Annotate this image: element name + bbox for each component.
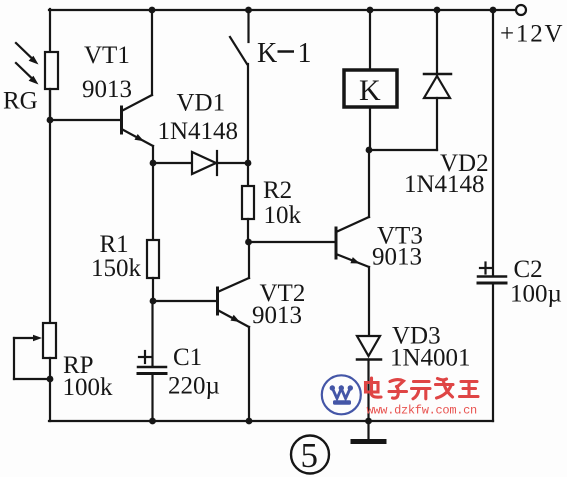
wire R1 bottom bbox=[152, 278, 154, 301]
diode VD2 bbox=[424, 10, 451, 150]
wire top rail bbox=[49, 9, 516, 11]
wire R2 bottom bbox=[247, 219, 249, 242]
transistor VT3 bbox=[336, 217, 369, 267]
label K-1 dash and 1 bbox=[278, 50, 295, 53]
wire RP bottom to bottom rail bbox=[49, 358, 51, 421]
wire left rail upper bbox=[49, 9, 51, 120]
node +12V terminal bbox=[516, 5, 526, 15]
svg-text:1: 1 bbox=[298, 38, 312, 69]
capacitor C1 bbox=[138, 301, 166, 421]
capacitor C2 bbox=[478, 10, 506, 421]
svg-text:220µ: 220µ bbox=[168, 373, 220, 400]
junction dots bbox=[149, 7, 156, 14]
svg-text:C2: C2 bbox=[514, 256, 543, 283]
svg-text:RG: RG bbox=[3, 88, 38, 115]
wire relay node horizontal bbox=[369, 149, 437, 151]
circuit number badge bbox=[291, 436, 329, 474]
svg-text:+12V: +12V bbox=[500, 21, 564, 48]
potentiometer RP wiper bbox=[14, 335, 50, 379]
watermark logo circle bbox=[322, 375, 361, 414]
svg-text:150k: 150k bbox=[91, 255, 142, 282]
svg-text:100k: 100k bbox=[63, 374, 114, 401]
svg-text:VD1: VD1 bbox=[177, 90, 226, 117]
photoresistor RG arrows bbox=[16, 43, 39, 85]
transistor VT2 bbox=[218, 278, 250, 327]
svg-text:9013: 9013 bbox=[82, 76, 132, 103]
svg-text:K: K bbox=[257, 38, 277, 69]
wire switch to VD1 node bbox=[247, 64, 249, 186]
svg-text:VT1: VT1 bbox=[84, 42, 130, 69]
wire VT2 base bbox=[153, 300, 217, 302]
wire VD1 anode bbox=[153, 162, 248, 164]
wire VT2 emitter to bottom rail bbox=[248, 327, 250, 421]
switch K-1 bbox=[230, 10, 249, 64]
svg-text:9013: 9013 bbox=[372, 244, 422, 271]
svg-text:C1: C1 bbox=[173, 344, 202, 371]
wire VT2 collector up bbox=[248, 242, 250, 278]
resistor R2 body bbox=[242, 186, 254, 219]
watermark logo W bbox=[330, 385, 353, 404]
svg-text:www.dzkfw.com.cn: www.dzkfw.com.cn bbox=[367, 404, 478, 418]
wire VT1 base bbox=[50, 119, 120, 121]
svg-text:1N4148: 1N4148 bbox=[158, 118, 239, 145]
svg-text:9013: 9013 bbox=[252, 302, 302, 329]
wire left rail RG to RP bbox=[49, 89, 51, 323]
wire VT1 emitter down bbox=[152, 146, 154, 163]
wire VT3 base bbox=[248, 241, 335, 243]
ground bbox=[353, 421, 384, 442]
diode VD3 bbox=[357, 336, 381, 421]
wire R1 top bbox=[152, 163, 154, 240]
svg-text:10k: 10k bbox=[264, 202, 302, 229]
svg-text:K: K bbox=[359, 74, 381, 107]
wire VT1 collector to top rail bbox=[151, 10, 153, 95]
wire VT3 emitter down bbox=[368, 267, 370, 336]
watermark chinese text bbox=[366, 378, 479, 399]
wire bottom rail bbox=[49, 420, 493, 422]
svg-text:R2: R2 bbox=[263, 177, 292, 204]
resistor R1 body bbox=[147, 240, 159, 278]
svg-text:100µ: 100µ bbox=[510, 281, 562, 308]
svg-text:5: 5 bbox=[301, 436, 319, 475]
transistor VT1 bbox=[122, 95, 154, 146]
wire VT3 collector to relay node bbox=[368, 150, 370, 217]
resistor RG body bbox=[45, 52, 58, 89]
svg-text:1N4148: 1N4148 bbox=[404, 171, 485, 198]
diode VD1 bbox=[192, 151, 217, 175]
potentiometer RP body bbox=[43, 323, 56, 358]
svg-text:1N4001: 1N4001 bbox=[390, 345, 471, 372]
svg-text:R1: R1 bbox=[100, 231, 129, 258]
relay K coil bbox=[344, 10, 397, 150]
